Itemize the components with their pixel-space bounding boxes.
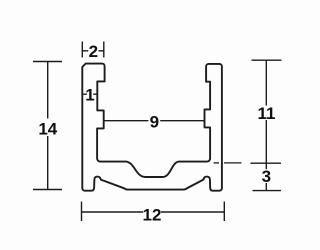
dim 11/3 mid cap xyxy=(251,162,282,164)
svg-text:9: 9 xyxy=(150,113,159,132)
dim 11 top cap xyxy=(252,59,282,61)
dim 2 line xyxy=(82,50,88,52)
dim 2 ext line right xyxy=(103,42,105,58)
dim 14 bottom cap xyxy=(33,189,62,191)
svg-text:11: 11 xyxy=(258,104,276,123)
svg-text:1: 1 xyxy=(85,85,94,104)
svg-text:14: 14 xyxy=(38,120,57,139)
dim 14 line xyxy=(47,62,49,119)
profile cross-section outline xyxy=(82,64,222,191)
dim 2 ext line left xyxy=(81,42,83,58)
dim 12 left cap xyxy=(81,202,83,222)
svg-text:3: 3 xyxy=(262,167,271,186)
dim 9 line xyxy=(104,120,149,122)
dim 3 bottom cap xyxy=(253,190,282,192)
dim 1 line xyxy=(83,93,87,95)
center dash line xyxy=(214,162,220,164)
dim 11/3 line xyxy=(265,60,267,105)
svg-text:2: 2 xyxy=(89,42,98,61)
svg-text:12: 12 xyxy=(143,205,162,224)
dim 12 right cap xyxy=(223,202,225,222)
dim 12 line xyxy=(82,211,144,213)
dim 14 top cap xyxy=(33,61,62,63)
